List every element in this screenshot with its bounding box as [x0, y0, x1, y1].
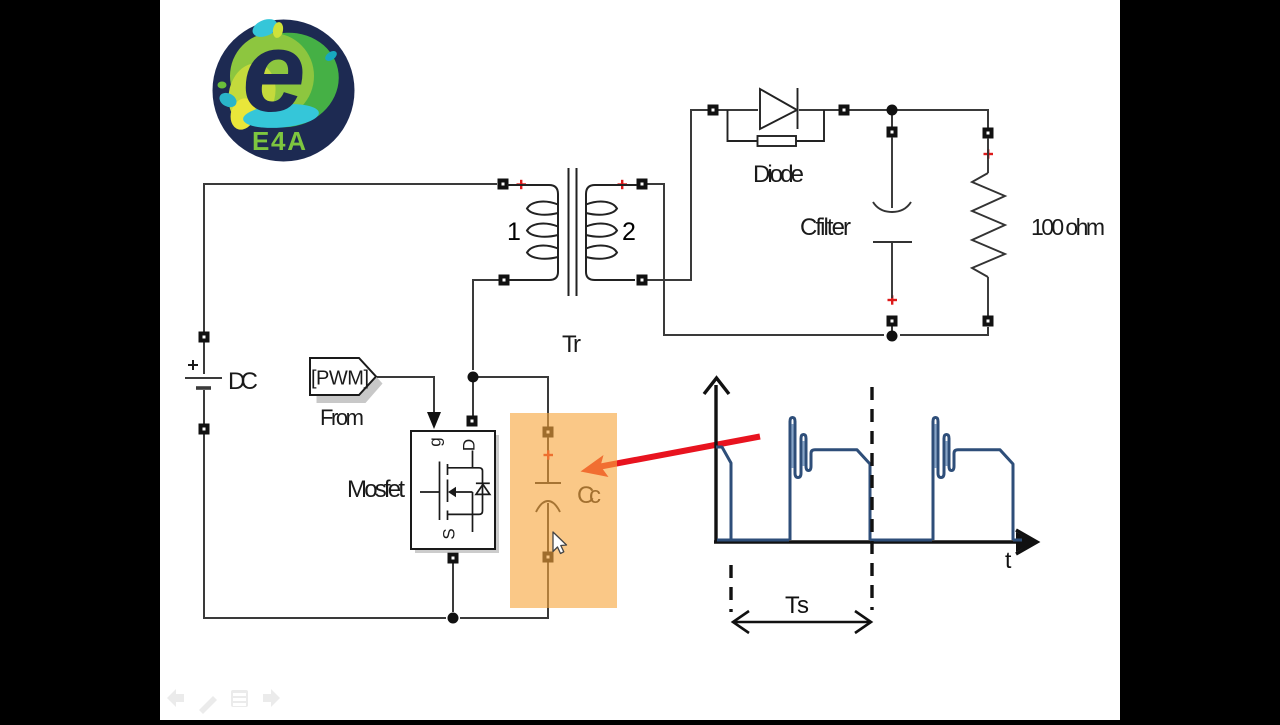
port: secondary top (pin 2+)	[637, 179, 648, 190]
orange highlight overlay on Cc branch	[510, 413, 617, 608]
mosfet block Q1: body	[411, 431, 499, 553]
svg-text:Tr: Tr	[562, 331, 581, 358]
battery + polarity sign	[188, 360, 198, 370]
svg-text:DC: DC	[228, 368, 258, 395]
wire: DC + terminal up and right to transformer primary top	[204, 184, 497, 332]
polarity + resistor top	[984, 149, 994, 158]
svg-text:2: 2	[622, 218, 636, 246]
waveform: pulse 2 with ringing	[933, 418, 1013, 541]
waveform: pulse 1 with ringing	[790, 418, 870, 541]
polarity + primary top	[517, 180, 527, 189]
svg-text:Mosfet: Mosfet	[347, 476, 405, 503]
waveform: baseline segment 1	[717, 539, 789, 542]
transformer Tr core	[569, 168, 577, 296]
wire: node A right to Cc top	[473, 377, 548, 427]
svg-text:g: g	[425, 437, 444, 446]
port: Cc bottom	[543, 552, 554, 563]
transformer Tr primary winding 1	[507, 185, 558, 280]
sketch y-axis with arrowhead	[704, 378, 729, 543]
wire: secondary top right then down to output bottom rail	[647, 184, 884, 335]
port: secondary bottom	[637, 275, 648, 286]
Ts measurement double arrow	[733, 611, 871, 633]
svg-text:E4A: E4A	[252, 126, 306, 156]
diode snubber resistor branch	[728, 110, 825, 146]
From tag [PWM]	[310, 358, 383, 403]
svg-text:1: 1	[507, 218, 521, 246]
wire: DC - terminal down to bottom rail	[204, 434, 446, 618]
capacitor Cc	[535, 437, 561, 552]
transformer Tr secondary winding 2	[586, 185, 637, 280]
wire: resistor bottom stub	[987, 315, 989, 317]
capacitor Cfilter	[873, 137, 912, 298]
dashed period marker right	[870, 387, 873, 610]
port: primary top (pin 1+)	[498, 179, 509, 190]
port: diode left	[708, 105, 719, 116]
waveform: partial pulse at axis	[716, 447, 731, 540]
mosfet substrate arrow	[448, 487, 456, 498]
svg-text:Diode: Diode	[753, 161, 804, 188]
red annotation arrow pointing at Cc	[581, 437, 761, 478]
waveform ringing highlight cores	[793, 424, 947, 468]
wire: output bottom rail to load resistor bottom	[900, 327, 988, 335]
svg-text:Ts: Ts	[785, 592, 809, 619]
port: resistor top	[983, 128, 994, 139]
svg-text:e: e	[242, 9, 305, 136]
wire: Cfilter bottom stub	[891, 326, 893, 332]
svg-text:t: t	[1005, 547, 1012, 573]
svg-text:S: S	[439, 528, 458, 539]
port: DC +	[199, 332, 210, 343]
junction node: bottom rail / Cfilter bottom	[887, 331, 898, 342]
port: Cfilter top	[887, 127, 898, 138]
junction node: top rail / Cfilter top	[887, 105, 898, 116]
sketch x-axis (time) with arrowhead	[714, 530, 1037, 554]
port: Cfilter bottom	[887, 316, 898, 327]
port: resistor bottom	[983, 316, 994, 327]
diode D1 symbol	[760, 88, 798, 129]
wire: transformer primary bottom to node A	[473, 280, 499, 370]
E4A channel logo	[213, 9, 355, 162]
port: DC -	[199, 424, 210, 435]
wire: bottom rail node to Cc branch	[460, 562, 548, 618]
wire: node A down to mosfet drain	[472, 377, 474, 416]
port: primary bottom	[499, 275, 510, 286]
svg-text:100 ohm: 100 ohm	[1031, 214, 1105, 240]
wire: From tag to mosfet gate	[377, 377, 434, 412]
mouse cursor	[553, 532, 567, 554]
port: mosfet D	[467, 416, 478, 427]
port: mosfet S	[448, 553, 459, 564]
dashed period marker left	[729, 565, 732, 612]
port: diode right	[839, 105, 850, 116]
svg-text:D: D	[459, 439, 478, 451]
junction node: bottom rail / mosfet S / Cc	[448, 613, 459, 624]
wire: diode cathode to top rail and load resistor top	[799, 110, 988, 128]
svg-text:Cfilter: Cfilter	[800, 214, 851, 241]
wire: diode left port to anode	[717, 109, 758, 111]
mosfet symbol with body diode	[420, 451, 490, 533]
polarity + Cfilter bottom	[888, 295, 898, 304]
polarity + Cc top	[544, 450, 554, 459]
polarity + secondary top	[618, 180, 628, 189]
wire: secondary bottom right then up to diode left port	[647, 110, 708, 280]
junction node A: primary bottom / mosfet D / Cc	[468, 372, 479, 383]
resistor R1 100 ohm	[972, 138, 1005, 315]
wire: Cfilter top stub	[891, 115, 893, 127]
battery DC (DC voltage source)	[185, 342, 222, 424]
wire: mosfet source to bottom rail	[452, 563, 454, 612]
svg-text:From: From	[320, 405, 364, 430]
faint presenter toolbar icons	[167, 689, 280, 714]
signal arrowhead into gate	[427, 412, 441, 429]
port: Cc top	[543, 427, 554, 438]
waveform: baseline segment 3	[1013, 539, 1022, 542]
svg-text:[PWM]: [PWM]	[311, 368, 369, 390]
waveform: baseline segment 2	[870, 539, 932, 542]
